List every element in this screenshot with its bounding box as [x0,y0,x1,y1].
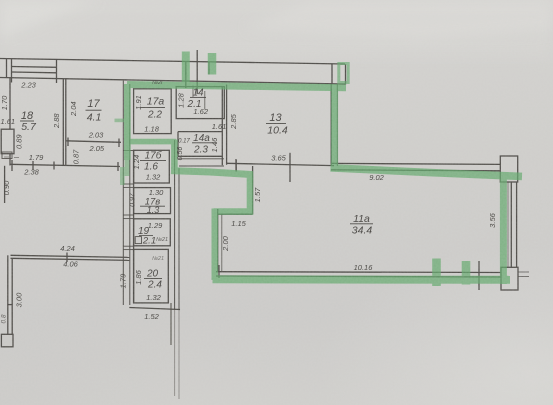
room 17 bottom wall tick right [118,139,120,148]
stair hatch inner line 2 [12,71,57,74]
wall 18/17 line 2 [65,79,67,166]
bottom wall second line [216,276,501,277]
room 14a top line [178,131,222,133]
stair hatch inner line 1 [12,66,57,69]
room 17b label [140,150,166,173]
green corridor band [171,171,253,175]
bottom wall pencil tick [478,261,480,290]
room 18 closet box [1,129,14,154]
room 18 left wall upper [9,78,11,130]
room 11a left wall inner [221,214,223,271]
bottom wall tick 2 [32,161,34,170]
room 14 box [176,87,224,119]
green vertical on wall 17/17a lower [125,158,130,176]
wall 14/13 line 2 [226,85,228,165]
left lower wall tick [8,304,12,306]
long bottom wall of rooms 18/17 [10,164,120,166]
room 17 label [86,98,102,124]
room 20 box [134,249,169,303]
room 20 label [144,269,162,291]
corridor wall 0.56 line 1 upper [174,140,176,310]
left lower wall line 1 [7,255,9,334]
green stub door 17 [115,119,129,123]
tiny scribble marks left wall bottom [4,156,9,158]
green vertical on wall 17/17a [124,84,131,160]
corridor wall vertical A [122,81,124,305]
left wall 0.90 segment [4,166,6,203]
right wall inner line [507,182,509,268]
3.65 tick left [235,159,237,172]
stair hatch box right tick [56,59,58,83]
green tick bar bottom 2 [462,261,471,285]
paper lighter top band [0,0,553,57]
green vertical wall right of 13 [331,86,338,170]
room 17a box [134,89,172,134]
dim tick through 2.1 label [204,91,206,110]
9.02 wall bottom line [331,170,500,171]
column right lower wall [170,303,172,345]
band below 14a line 2 [179,165,224,167]
corridor wall 0.56 line 1 lower fading [174,310,176,396]
4.24 wall line 2 [11,258,130,260]
top exterior wall top line [0,59,345,65]
corridor connector ticks [123,150,133,152]
room 14a left wall [177,132,179,157]
green bottom band [213,275,511,284]
bottom wall tick 1 [11,160,13,171]
top wall end inner tick [331,64,333,85]
rooms column left wall [133,150,135,303]
green 11a left wall [212,209,219,281]
room 14a bottom line [178,155,222,157]
11a notch top line [218,213,253,215]
green 1.57 wall [247,174,254,212]
band below 14a line 1 [178,158,224,160]
room 14 label [187,88,206,111]
9.02 wall top line [331,163,500,164]
room 17a label [140,96,165,121]
corridor wall 0.56 line 2 lower fading [178,310,180,399]
bottom-right pier box [501,267,518,290]
1.57 wall line [252,166,254,214]
green tick bar bottom 1 [432,259,441,287]
left wall small box [2,152,12,159]
paper top-right crease highlight [245,0,553,40]
room 19 inner small box [135,237,141,244]
room 17 bottom wall [66,141,121,143]
green 9.02 band [331,168,523,177]
dim tick at 14 label [192,86,194,98]
stair hatch box left tick [11,59,13,83]
room 13 label [266,112,288,137]
green tick left of 17b [120,167,125,185]
room 13 right wall inner [336,84,338,166]
room 11a left wall [217,209,219,272]
room 17v box [134,188,171,214]
room 14a label [192,133,217,156]
window tick b (tall) [196,50,198,94]
green jog right of 17a [127,139,176,145]
bottom wall tick 3 [53,162,55,170]
room 19 box [134,219,171,246]
room 17v label [140,197,165,216]
paper top-left corner highlight [0,0,100,38]
top exterior wall bottom line [0,78,345,85]
wall 18/17 line 1 [62,79,64,166]
green jog down 0.56 [171,140,178,171]
4.24 wall mid tick [66,253,68,263]
room 18 label [20,110,37,133]
right pier box top [500,156,517,182]
bottom wall tick 4 [117,162,119,171]
green outlined box at top wall end [339,64,348,83]
room 11a label [350,213,373,237]
right wall line 1 [510,182,512,268]
green top band along exterior wall [127,85,346,88]
3.65 tick long [289,153,291,182]
green bar above wall right [208,53,217,75]
window tick a [185,62,187,89]
wall 14/13 line 1 [221,87,223,166]
room 13 right wall [330,84,332,166]
green notch band [214,208,254,215]
4.24 wall line 1 [11,255,130,257]
left wall end box [1,334,13,347]
room 18 left wall lower [9,154,11,166]
right wall line 2 [516,182,518,268]
room 19 label [138,226,156,247]
bottom wall left end tick [218,265,220,278]
column bottom outer wall [129,308,180,310]
room 17 bottom wall tick left [67,138,69,147]
corridor wall vertical B [129,84,131,305]
window tick c [208,62,210,75]
top wall right end cap [345,64,347,85]
top wall left end tick [6,58,8,78]
room 17b box [134,150,170,183]
1.57 tick top [235,160,237,172]
left lower wall line 2 [11,258,13,334]
bottom wall top line [216,271,501,274]
green top band denser left part [127,85,232,87]
stub lines right of bottom-right pier [518,271,529,273]
room 13 bottom wall [227,163,334,165]
green right wall vertical [500,174,507,285]
corridor wall 0.56 line 2 upper [178,168,180,310]
green bar above wall left [182,52,190,87]
